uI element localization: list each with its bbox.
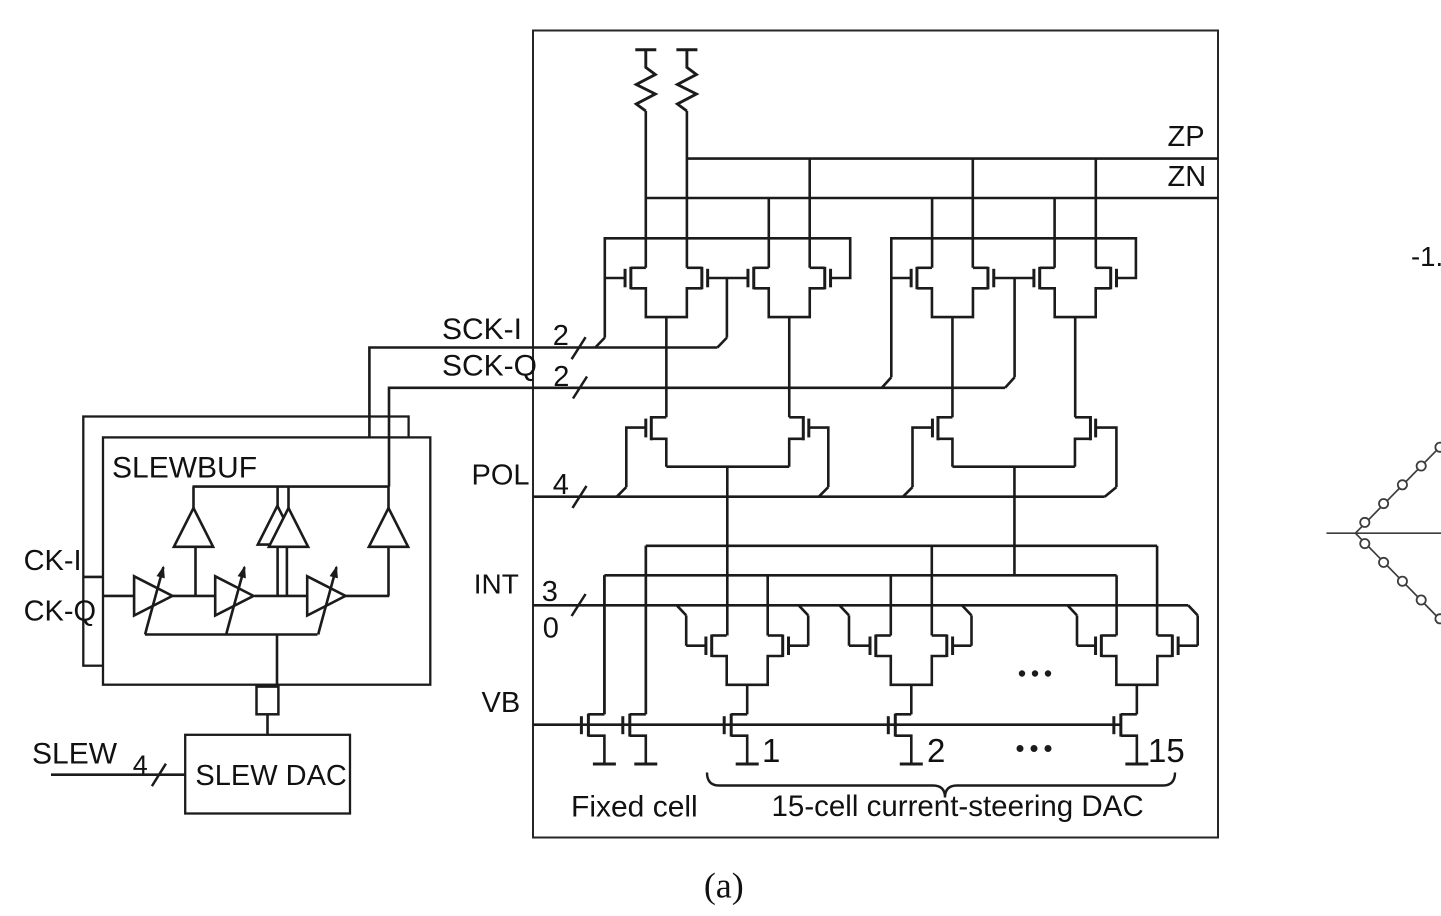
wire SLEW input [51, 773, 185, 776]
wire INT tap to M16 gate [962, 605, 972, 615]
buffer A2 back [258, 506, 297, 545]
pair M15/M16 (INT switches cell 2) [874, 635, 877, 658]
wire ZP to M6 drain [971, 159, 974, 268]
wire M11 gate to POL tap [903, 487, 913, 497]
wire R1 to ZN / M1 drain [644, 111, 647, 268]
SLEW DAC box U2 [185, 735, 350, 814]
pair M7/M8 (SCK-Q switches) [1038, 267, 1041, 290]
slash SCK-Q bus [573, 377, 587, 399]
wire inner1 to SCK-I tap [717, 338, 727, 348]
net POL bus [533, 495, 1105, 498]
wire M11/M12 source to node B [1013, 467, 1016, 576]
wire node B to M14 drain [766, 575, 769, 635]
svg-text:(a): (a) [704, 866, 744, 906]
buffer A1 [174, 508, 213, 547]
svg-text:2: 2 [553, 320, 569, 352]
wire M12 gate [1096, 428, 1117, 488]
wire ZP to M4 drain [808, 159, 811, 268]
wire M9 gate [626, 428, 646, 488]
wire buffer top rail [193, 485, 390, 488]
pair M3/M4 (SCK-I switches) [752, 267, 755, 290]
transistor MD2 (DAC cell 2) [894, 714, 897, 737]
resistor R2 [676, 48, 697, 51]
svg-text:0: 0 [543, 613, 559, 645]
transistor M9 [650, 416, 653, 440]
bus connector [257, 687, 279, 715]
wire M9/M10 source bar [666, 465, 789, 468]
svg-text:Fixed cell: Fixed cell [571, 791, 698, 824]
net INTN (node B) [604, 574, 1116, 577]
lower branch markers [1360, 539, 1369, 548]
net SCK-I bus [369, 348, 717, 438]
resistor R1 [635, 48, 656, 51]
net INT bus [533, 604, 1188, 607]
SLEWBUF back box (I instance) [83, 417, 408, 666]
buffer A3 [369, 508, 408, 547]
wire frame2 to SCK-Q tap [882, 377, 892, 388]
wire M1/M2 source to M9 drain [665, 317, 668, 417]
svg-text:4: 4 [133, 750, 148, 780]
transistor M12 [1089, 416, 1092, 440]
wire gate frame pairs 1-2 [605, 238, 850, 337]
transistor MF2 (fixed cell) [628, 714, 631, 737]
wire gate frame pairs 3-4 [891, 238, 1136, 377]
svg-text:SLEW DAC: SLEW DAC [195, 760, 346, 792]
wire M15/M16 source to cell 2 [910, 685, 913, 714]
svg-text:POL: POL [472, 460, 530, 492]
SLEWBUF front box U1 (Q instance) [103, 437, 430, 684]
svg-text:INT: INT [474, 569, 519, 600]
wire M11 gate [913, 428, 933, 488]
wire A3 stub [387, 487, 390, 508]
wire M13/M14 source to cell 1 [746, 685, 749, 714]
transistor MD15 (DAC cell 15) [1119, 714, 1122, 737]
wire INT tap to M18 gate [1188, 605, 1198, 615]
slash SLEW bus [152, 764, 166, 786]
transistor MF1 (fixed cell) [587, 714, 590, 737]
wire node A to fixed cell 2 [644, 546, 647, 715]
transistor M11 [936, 416, 939, 440]
svg-text:4: 4 [553, 469, 569, 501]
wire M1 gate lead [605, 277, 625, 280]
dots bottom row [1017, 745, 1024, 752]
upper branch markers [1360, 518, 1369, 527]
pair M1/M2 (SCK-I switches) [629, 267, 632, 290]
DAC core box [533, 31, 1218, 838]
net VB rail [533, 723, 1121, 726]
vga B1 [134, 576, 172, 615]
wire M5 gate lead [891, 277, 911, 280]
svg-text:VB: VB [482, 687, 521, 719]
svg-text:-1.: -1. [1411, 241, 1441, 272]
wire M10 gate [809, 428, 829, 488]
wire M17/M18 source to cell 15 [1136, 685, 1139, 714]
wire node A to M18 drain [1156, 546, 1159, 636]
wire fixed cell 2 drain [644, 546, 647, 715]
slash SCK-I bus [572, 337, 586, 359]
svg-text:SLEW: SLEW [32, 738, 118, 771]
upper branch line [1355, 446, 1441, 533]
wire inner gates pairs 3-4 [994, 277, 1034, 280]
slash POL bus [573, 486, 587, 508]
svg-text:SCK-I: SCK-I [442, 313, 522, 346]
wire INT tap to M13 gate [677, 605, 687, 615]
pair M5/M6 (SCK-Q switches) [915, 267, 918, 290]
wire stage line 1 [172, 595, 215, 598]
svg-text:SLEWBUF: SLEWBUF [112, 452, 257, 485]
net INTP (node A) [646, 544, 1157, 547]
svg-text:15-cell current-steering DAC: 15-cell current-steering DAC [772, 790, 1144, 823]
wire inner gates pairs 1-2 [708, 277, 748, 280]
wire M9 gate to POL tap [617, 487, 627, 497]
buffer A2 [269, 508, 308, 547]
svg-text:SCK-Q: SCK-Q [442, 350, 537, 383]
svg-text:3: 3 [542, 576, 558, 608]
transistor M10 [802, 416, 805, 440]
wire stage line 2 [255, 595, 308, 598]
wire node B to M15 drain [889, 575, 892, 635]
wire M7/M8 source to M12 drain [1074, 317, 1077, 417]
wire node B to M17 drain [1115, 575, 1118, 635]
wire slew control line [145, 633, 318, 636]
vga B2 [215, 576, 253, 615]
net SCK-Q bus [389, 388, 1005, 487]
wire INT tap to M15 gate [840, 605, 850, 615]
wire node B to fixed cell 1 [603, 575, 606, 714]
svg-text:CK-I: CK-I [24, 545, 82, 577]
net ZP rail [687, 157, 1218, 160]
wire INT tap to M17 gate [1068, 605, 1078, 615]
dots row3 [1019, 670, 1025, 676]
svg-text:ZN: ZN [1168, 161, 1207, 193]
svg-text:ZP: ZP [1168, 121, 1205, 153]
wire stage line 3 [346, 595, 390, 598]
wire ZN to M3 drain [767, 198, 770, 268]
pair M17/M18 (INT switches cell 15) [1100, 635, 1103, 658]
wire CK-Q input [103, 595, 134, 598]
lower branch line [1355, 533, 1441, 620]
wire M9/M10 source to node A and M13 drain [726, 467, 729, 636]
wire M3/M4 source to M10 drain [788, 317, 791, 417]
wire connector to DAC [266, 714, 269, 735]
svg-text:2: 2 [927, 732, 945, 769]
wire M5/M6 source to M11 drain [951, 317, 954, 417]
vga B3 [307, 576, 345, 615]
brace 15-cell DAC [707, 773, 1175, 798]
wire slew tap [276, 635, 279, 687]
wire inner2 to SCK-Q tap [1005, 377, 1015, 388]
svg-text:2: 2 [553, 361, 569, 393]
transistor MD1 (DAC cell 1) [730, 714, 733, 737]
net ZN rail [646, 197, 1218, 200]
pair M13/M14 (INT switches cell 1) [710, 635, 713, 658]
svg-text:CK-Q: CK-Q [24, 596, 97, 628]
wire ZP to M8 drain [1095, 159, 1098, 268]
svg-text:15: 15 [1148, 732, 1185, 769]
wire CK-I stub [83, 576, 103, 579]
wire frame1 to SCK-I tap [595, 338, 605, 348]
svg-text:1: 1 [762, 732, 780, 769]
wire M10 gate to POL tap [819, 487, 829, 497]
slash INT bus [572, 594, 586, 616]
wire ZN to M7 drain [1053, 198, 1056, 268]
wire M12 gate to POL tap [1105, 487, 1117, 497]
wire INT tap to M14 gate [799, 605, 809, 615]
wire node A to M16 drain [930, 546, 933, 636]
axis line (right figure) [1327, 532, 1441, 534]
wire fixed cell 1 drain [603, 575, 606, 714]
wire ZN to M5 drain [931, 198, 934, 268]
wire M11/M12 source bar [952, 465, 1074, 468]
wire R2 to ZP / M2 drain [686, 111, 689, 268]
